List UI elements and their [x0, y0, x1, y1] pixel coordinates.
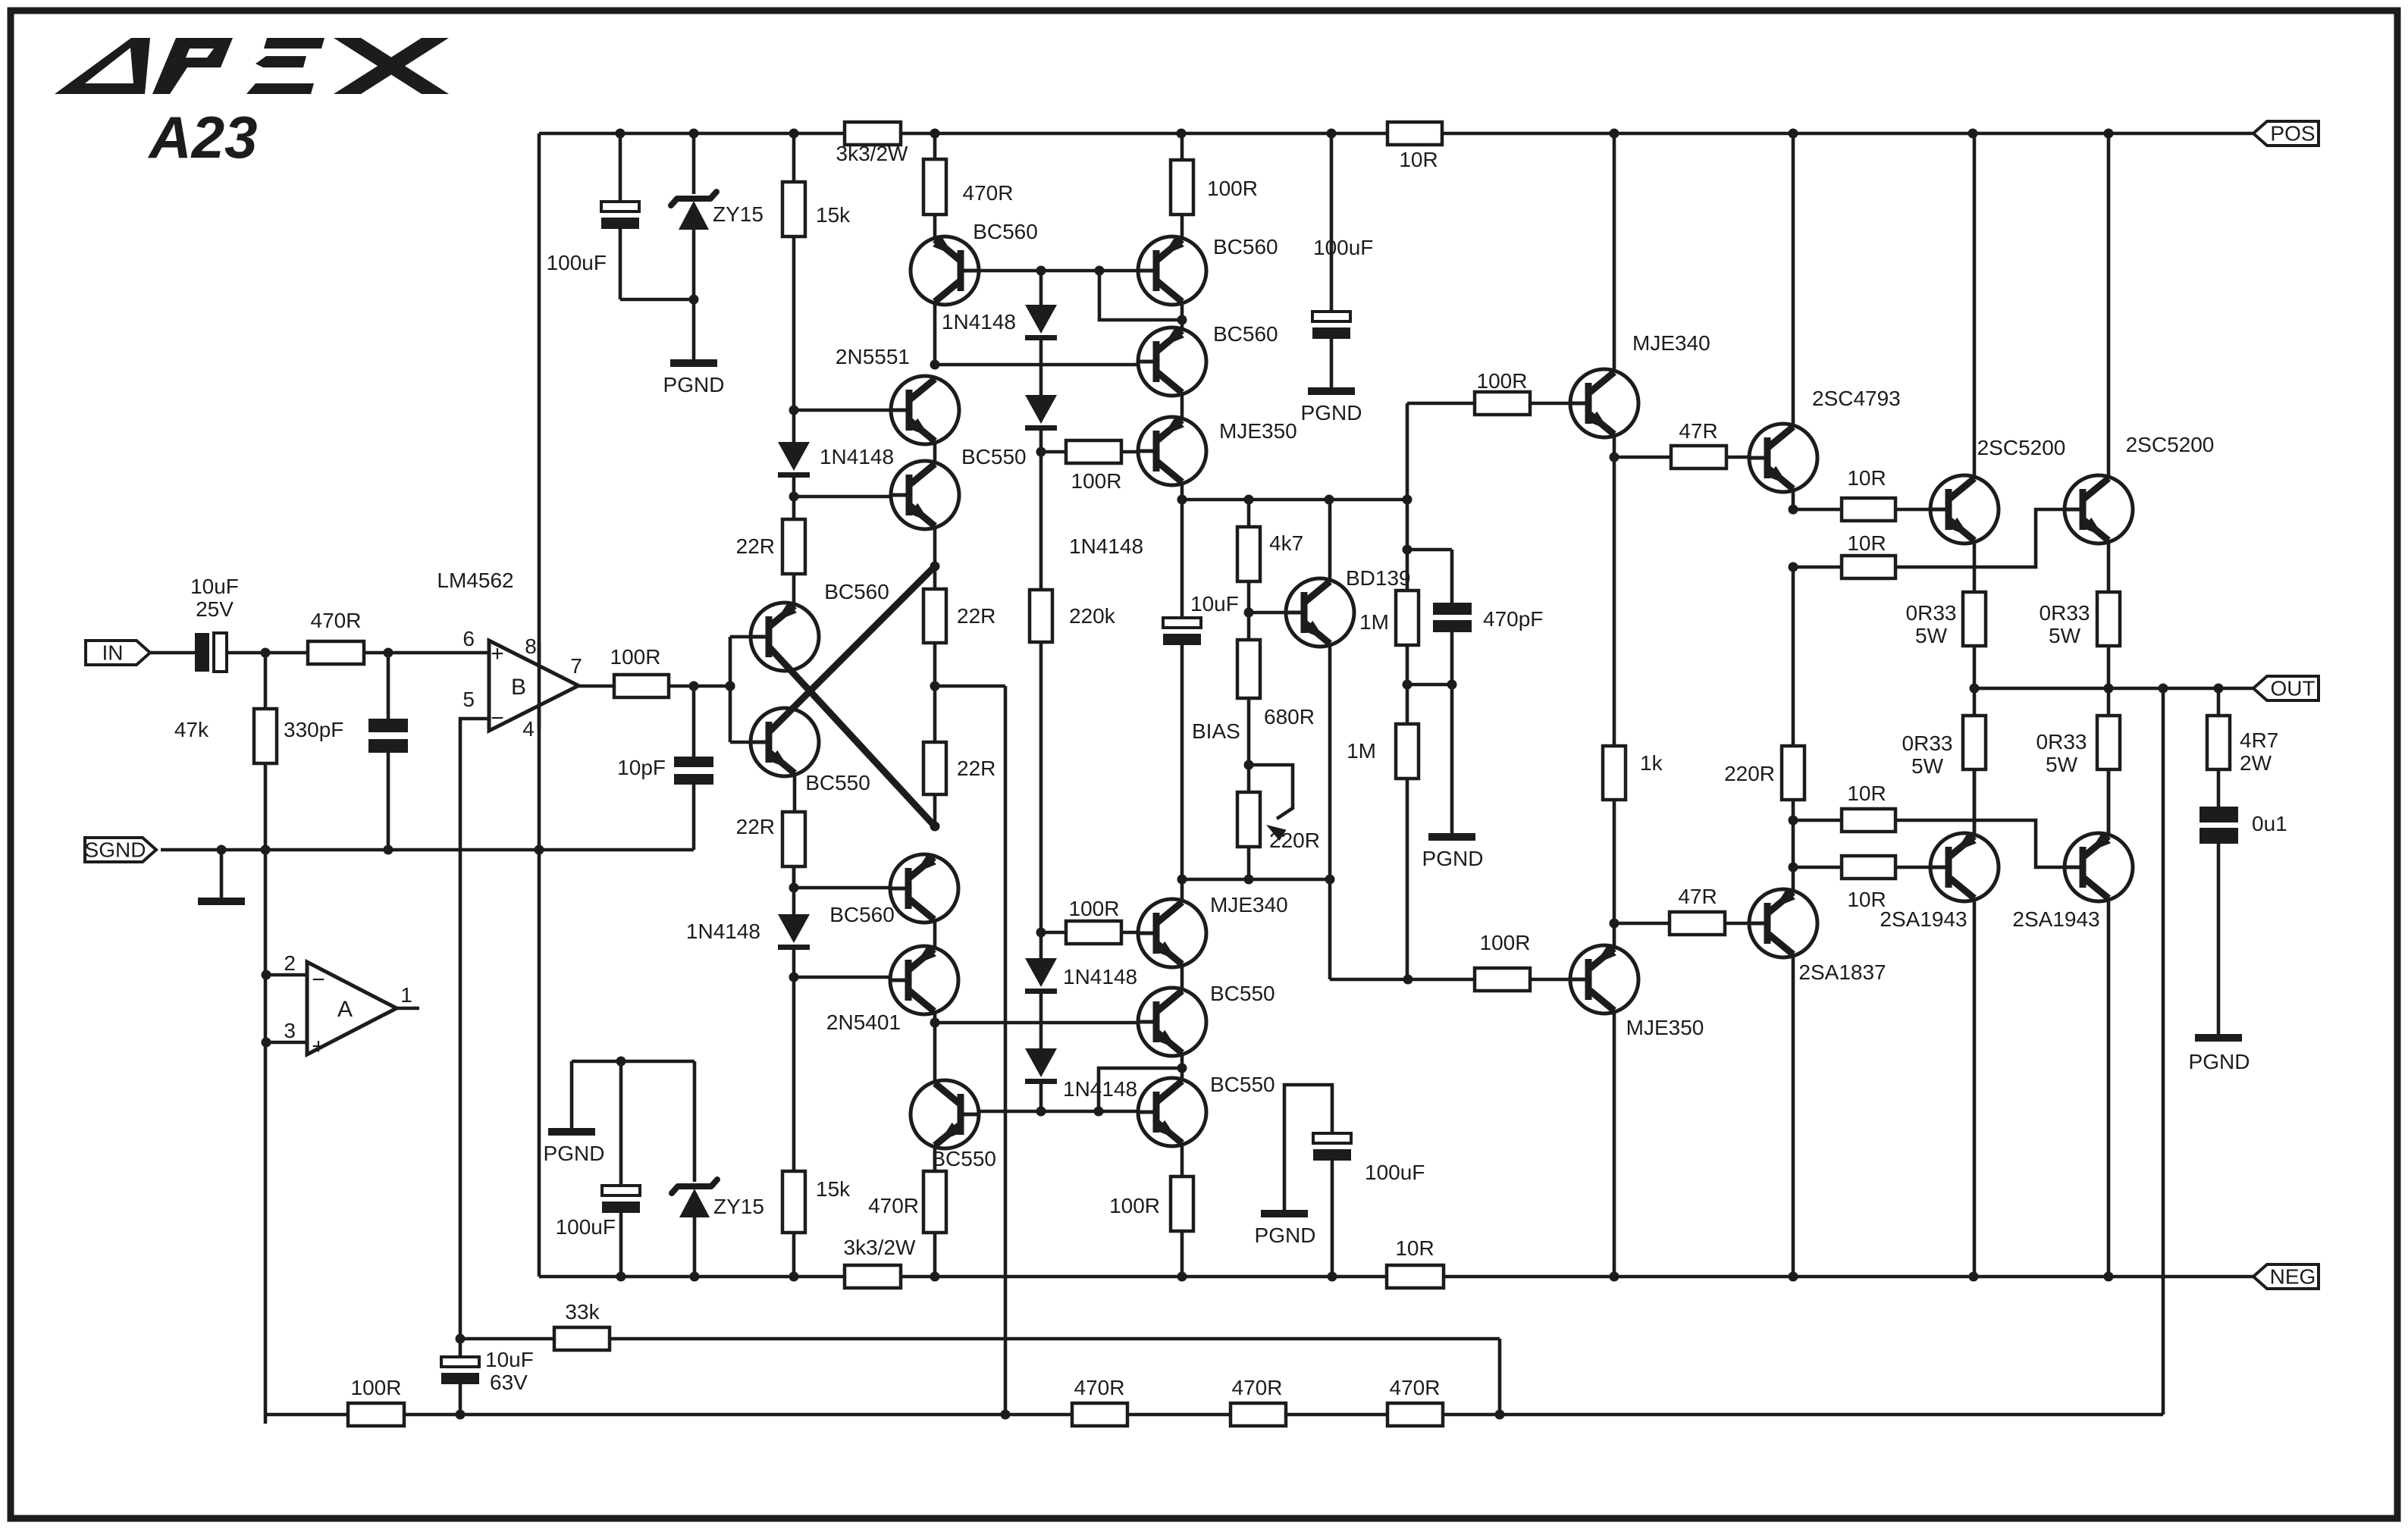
svg-text:10uF: 10uF — [1190, 592, 1239, 616]
svg-text:100R: 100R — [1069, 897, 1120, 920]
svg-text:1N4148: 1N4148 — [820, 445, 894, 468]
svg-text:100R: 100R — [1477, 369, 1528, 393]
svg-text:220R: 220R — [1724, 762, 1775, 785]
svg-text:3k3/2W: 3k3/2W — [844, 1236, 916, 1259]
svg-text:A: A — [337, 997, 353, 1022]
svg-text:100uF: 100uF — [1365, 1161, 1425, 1184]
svg-text:BC560: BC560 — [829, 903, 895, 926]
svg-text:4: 4 — [522, 717, 535, 741]
svg-text:BD139: BD139 — [1346, 566, 1411, 590]
svg-text:6: 6 — [462, 627, 475, 650]
svg-text:680R: 680R — [1264, 705, 1315, 728]
svg-text:1k: 1k — [1640, 751, 1663, 775]
svg-text:2N5401: 2N5401 — [826, 1010, 901, 1034]
svg-text:100R: 100R — [1207, 177, 1258, 200]
svg-text:MJE350: MJE350 — [1626, 1016, 1704, 1039]
svg-text:ZY15: ZY15 — [713, 202, 763, 226]
svg-text:PGND: PGND — [663, 373, 725, 396]
svg-text:10R: 10R — [1847, 531, 1886, 555]
svg-text:0u1: 0u1 — [2252, 812, 2287, 835]
svg-text:22R: 22R — [957, 604, 995, 628]
svg-text:−: − — [491, 706, 504, 731]
svg-text:3k3/2W: 3k3/2W — [836, 142, 908, 165]
svg-text:22R: 22R — [736, 815, 775, 838]
svg-text:BC560: BC560 — [973, 220, 1038, 243]
svg-text:IN: IN — [102, 641, 124, 665]
svg-text:100uF: 100uF — [547, 251, 607, 274]
svg-text:15k: 15k — [816, 1177, 851, 1201]
svg-text:470R: 470R — [1390, 1376, 1441, 1399]
svg-text:470R: 470R — [868, 1194, 919, 1217]
svg-text:2W: 2W — [2240, 751, 2272, 775]
svg-text:MJE340: MJE340 — [1210, 893, 1288, 916]
svg-text:4R7: 4R7 — [2240, 728, 2278, 752]
svg-text:PGND: PGND — [2189, 1050, 2250, 1073]
svg-text:5W: 5W — [1915, 624, 1948, 647]
svg-text:100R: 100R — [1109, 1194, 1160, 1217]
svg-text:ZY15: ZY15 — [713, 1195, 764, 1218]
svg-text:2SC5200: 2SC5200 — [2126, 433, 2215, 456]
svg-text:25V: 25V — [196, 597, 234, 621]
svg-text:5W: 5W — [2049, 624, 2081, 647]
svg-text:220k: 220k — [1069, 604, 1116, 628]
svg-text:1N4148: 1N4148 — [686, 920, 760, 943]
svg-text:5W: 5W — [2046, 753, 2078, 776]
svg-text:100R: 100R — [1071, 469, 1122, 493]
svg-text:A23: A23 — [147, 104, 257, 171]
svg-text:0R33: 0R33 — [1902, 732, 1953, 755]
svg-text:BC550: BC550 — [961, 445, 1027, 468]
svg-text:NEG: NEG — [2270, 1265, 2316, 1289]
svg-text:2SC5200: 2SC5200 — [1977, 436, 2066, 459]
svg-text:10R: 10R — [1847, 466, 1886, 490]
svg-text:470R: 470R — [963, 181, 1014, 205]
svg-text:15k: 15k — [816, 203, 851, 227]
svg-text:2N5551: 2N5551 — [836, 345, 910, 368]
svg-text:BC560: BC560 — [1213, 322, 1278, 346]
svg-text:330pF: 330pF — [284, 718, 343, 741]
svg-text:10R: 10R — [1847, 782, 1886, 805]
svg-text:LM4562: LM4562 — [437, 569, 513, 592]
svg-text:22R: 22R — [736, 534, 775, 558]
svg-text:+: + — [312, 1034, 325, 1059]
svg-text:100uF: 100uF — [556, 1215, 616, 1239]
svg-text:10uF: 10uF — [190, 575, 239, 598]
svg-text:4k7: 4k7 — [1269, 531, 1303, 555]
svg-text:−: − — [312, 967, 325, 992]
svg-text:100R: 100R — [610, 645, 661, 669]
svg-text:0R33: 0R33 — [1906, 601, 1957, 625]
svg-text:BC550: BC550 — [805, 771, 870, 794]
svg-text:BC560: BC560 — [1213, 235, 1278, 258]
svg-text:1: 1 — [400, 983, 412, 1007]
svg-text:7: 7 — [570, 654, 582, 678]
svg-text:100uF: 100uF — [1313, 236, 1373, 259]
svg-text:2SA1837: 2SA1837 — [1798, 960, 1886, 984]
svg-text:47k: 47k — [174, 718, 209, 741]
svg-text:BIAS: BIAS — [1192, 719, 1240, 743]
svg-text:B: B — [511, 675, 526, 700]
svg-text:PGND: PGND — [544, 1142, 605, 1165]
svg-text:+: + — [491, 641, 504, 666]
svg-text:10uF: 10uF — [485, 1348, 534, 1371]
svg-text:1N4148: 1N4148 — [1063, 965, 1137, 989]
svg-text:10pF: 10pF — [617, 756, 666, 779]
svg-text:BC560: BC560 — [824, 580, 889, 603]
svg-text:MJE340: MJE340 — [1632, 331, 1710, 355]
svg-text:BC550: BC550 — [1210, 1073, 1275, 1096]
svg-text:47R: 47R — [1678, 885, 1717, 908]
svg-text:100R: 100R — [1480, 931, 1531, 954]
svg-text:SGND: SGND — [85, 838, 146, 862]
svg-text:1N4148: 1N4148 — [942, 310, 1016, 334]
svg-text:MJE350: MJE350 — [1219, 419, 1297, 443]
svg-text:2SA1943: 2SA1943 — [1880, 907, 1967, 931]
svg-text:470R: 470R — [1232, 1376, 1283, 1399]
svg-text:22R: 22R — [957, 757, 995, 780]
svg-text:1M: 1M — [1359, 610, 1389, 634]
svg-text:0R33: 0R33 — [2036, 730, 2087, 754]
svg-text:BC550: BC550 — [1210, 982, 1275, 1005]
svg-text:POS: POS — [2270, 122, 2315, 146]
svg-text:470R: 470R — [311, 609, 362, 632]
svg-text:470pF: 470pF — [1483, 607, 1543, 631]
svg-text:10R: 10R — [1399, 148, 1438, 171]
svg-text:33k: 33k — [565, 1300, 600, 1324]
svg-text:63V: 63V — [490, 1371, 528, 1394]
svg-text:3: 3 — [284, 1019, 296, 1042]
svg-text:2SC4793: 2SC4793 — [1812, 387, 1901, 410]
svg-text:0R33: 0R33 — [2040, 601, 2090, 625]
svg-text:5: 5 — [462, 688, 475, 711]
svg-text:47R: 47R — [1679, 419, 1717, 443]
svg-text:2: 2 — [284, 951, 296, 975]
svg-text:1N4148: 1N4148 — [1069, 534, 1143, 558]
svg-text:8: 8 — [525, 634, 537, 658]
svg-text:5W: 5W — [1911, 754, 1944, 778]
svg-text:PGND: PGND — [1422, 847, 1484, 870]
svg-text:BC550: BC550 — [931, 1147, 996, 1170]
svg-text:100R: 100R — [351, 1376, 402, 1399]
svg-text:1M: 1M — [1347, 739, 1376, 763]
svg-text:10R: 10R — [1395, 1236, 1434, 1260]
svg-text:2SA1943: 2SA1943 — [2012, 907, 2099, 931]
svg-text:1N4148: 1N4148 — [1063, 1077, 1137, 1101]
svg-text:PGND: PGND — [1301, 401, 1362, 425]
svg-text:470R: 470R — [1074, 1376, 1125, 1399]
svg-text:OUT: OUT — [2270, 677, 2315, 700]
svg-text:PGND: PGND — [1255, 1224, 1316, 1247]
